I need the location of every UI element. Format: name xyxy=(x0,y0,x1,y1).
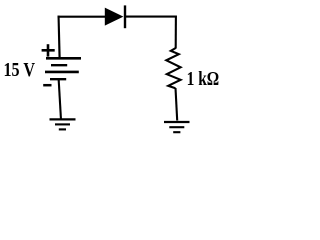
battery plate 1 (long, +) xyxy=(46,57,81,60)
diode (anode left, cathode right) triangle xyxy=(105,8,124,26)
battery plate 2 (short) xyxy=(51,64,67,66)
battery plate 4 (short, -) xyxy=(50,78,66,80)
svg-text:1 kΩ: 1 kΩ xyxy=(187,68,220,90)
wire battery bottom vertical (plate 4 down to ground) xyxy=(58,79,62,119)
svg-text:15 V: 15 V xyxy=(4,59,36,81)
wire right vertical (resistor bottom to ground) xyxy=(176,88,178,121)
wire left vertical (top corner down to battery top plate) xyxy=(58,16,61,58)
wire top-right horizontal (diode cathode to right corner) xyxy=(126,16,177,18)
ground (left) bar 2 xyxy=(55,123,70,125)
diode cathode bar xyxy=(124,5,126,28)
ground (left) bar 3 xyxy=(59,128,66,130)
ground (right) bar 1 xyxy=(164,121,190,123)
plus polarity mark xyxy=(42,44,55,56)
wire right vertical (corner down to resistor top) xyxy=(175,16,177,49)
wire top-left horizontal (battery + to diode anode) xyxy=(58,16,107,18)
minus polarity mark xyxy=(43,84,51,87)
ground (right) bar 3 xyxy=(173,131,180,133)
ground (right) bar 2 xyxy=(169,126,184,128)
resistor R (1 kOhm) zigzag body xyxy=(166,48,180,88)
ground (left) bar 1 xyxy=(50,118,76,120)
battery plate 3 (long) xyxy=(45,71,79,74)
